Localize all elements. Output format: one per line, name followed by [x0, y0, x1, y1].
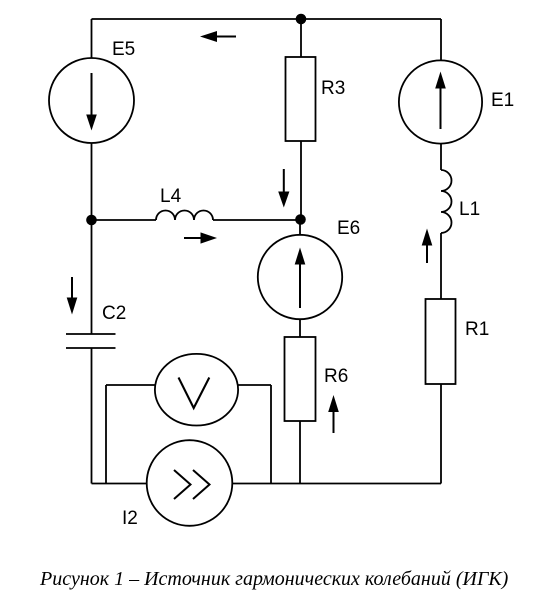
svg-text:I2: I2 [122, 508, 138, 529]
resistor R1 [426, 299, 456, 384]
E6 arrow (up) [295, 248, 306, 309]
resistor R3 [286, 57, 316, 141]
svg-text:E1: E1 [491, 90, 514, 111]
wire voltmeter loop top-right [239, 384, 272, 386]
wire C2 to bottom rail [91, 348, 93, 484]
wire E6 to R6 [299, 320, 301, 337]
wire node A to R3 [300, 19, 302, 57]
source E6 [258, 235, 342, 319]
wire top rail [92, 18, 442, 20]
wire R1 to bottom rail [440, 384, 442, 484]
svg-text:R1: R1 [465, 319, 489, 340]
voltmeter V glyph [179, 378, 210, 409]
node A (top junction dot) [296, 14, 307, 25]
wire voltmeter loop left vertical [105, 385, 107, 484]
wire R3 to node B [300, 141, 302, 220]
wire E1 bottom to L1 [440, 144, 442, 170]
wire bottom rail right segment [233, 483, 441, 485]
E1 arrow (up) [435, 72, 446, 130]
E5 arrow (down) [86, 73, 97, 131]
svg-text:E6: E6 [337, 218, 360, 239]
svg-text:L1: L1 [459, 199, 480, 220]
wire top-left vertical (E5 top to top rail) [91, 19, 93, 58]
inductor L4 [156, 211, 213, 221]
current arrow beside L1 (up) [422, 229, 433, 264]
wire E5 bottom to C2 [91, 144, 93, 335]
svg-text:Рисунок 1 – Источник гармониче: Рисунок 1 – Источник гармонических колеб… [39, 568, 509, 590]
wire R6 to bottom rail [299, 421, 301, 484]
svg-text:R3: R3 [321, 78, 345, 99]
current arrow beside R3 wire (down) [278, 169, 289, 208]
current arrow under L4 (right) [184, 232, 217, 243]
voltmeter V [155, 354, 238, 426]
source E5 [49, 58, 134, 143]
wire E1 top [440, 19, 442, 61]
svg-text:R6: R6 [324, 366, 348, 387]
node B (junction dot at L4/R3/E6) [295, 214, 306, 225]
wire voltmeter loop right vertical [270, 385, 272, 484]
current arrow beside C2 (down) [67, 277, 78, 315]
inductor L1 [441, 170, 452, 233]
svg-text:E5: E5 [112, 39, 135, 60]
wire L1 to R1 [440, 233, 442, 299]
current arrow beside R6 (up) [328, 395, 339, 433]
resistor R6 [285, 337, 316, 421]
source E1 [399, 60, 482, 143]
wire node B to E6 [299, 220, 301, 235]
svg-text:C2: C2 [102, 303, 126, 324]
wire L4 right segment [213, 219, 301, 221]
current source I2 [147, 440, 233, 526]
wire L4 left segment [92, 219, 157, 221]
wire bottom rail left segment [92, 483, 147, 485]
svg-text:L4: L4 [160, 186, 182, 207]
I2 chevrons [174, 470, 210, 499]
current arrow top (left) [200, 31, 236, 42]
node C (junction dot left, E5/C2/L4) [86, 215, 97, 226]
wire voltmeter loop top-left [106, 384, 155, 386]
capacitor C2 [66, 334, 116, 348]
